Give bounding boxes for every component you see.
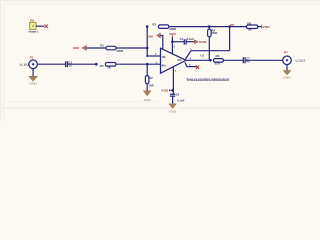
- wire R9 bottom to output node: [208, 37, 210, 61]
- wire R8 to VDD: [258, 26, 262, 28]
- wire VDD pin 8 into op-amp: [171, 42, 173, 54]
- R3 value 51R: [215, 62, 220, 66]
- svg-text:VSS: VSS: [161, 89, 168, 93]
- R9 value 100R: [211, 32, 217, 35]
- wire VDD port down to node: [171, 37, 173, 42]
- svg-text:P7: P7: [284, 50, 288, 54]
- connector P1: [29, 60, 38, 69]
- junction node PD: [228, 25, 231, 28]
- svg-text:GND: GND: [169, 110, 177, 114]
- resistor R2 designator: [152, 23, 156, 27]
- svg-text:R3: R3: [216, 54, 220, 58]
- net label PD: [230, 23, 235, 27]
- resistor R5: [105, 63, 116, 67]
- wire P1 down to ground: [32, 69, 34, 77]
- R2 value 200R: [169, 27, 176, 31]
- svg-text:0.1uF: 0.1uF: [187, 37, 195, 41]
- resistor R9 designator: [211, 29, 215, 33]
- sheet border inner horizontal line: [4, 3, 320, 5]
- OUT2 stub diagonal lower: [185, 62, 197, 66]
- resistor R1: [106, 46, 116, 50]
- wire R5 to op-amp IN+: [116, 63, 161, 65]
- op-amp U1 triangle: [161, 48, 187, 73]
- pin number 3: [156, 62, 158, 65]
- power port VDD above op-amp: [169, 32, 177, 37]
- node A vertical wire: [146, 27, 148, 56]
- svg-text:IN+: IN+: [162, 64, 167, 68]
- resistor R8 designator: [247, 22, 251, 26]
- connector P6: [30, 22, 36, 29]
- resistor R9: [208, 29, 212, 37]
- resistor R3: [214, 59, 224, 63]
- capacitor C7: [243, 56, 250, 63]
- resistor R8: [247, 25, 258, 29]
- power port GND right of C4: [194, 40, 206, 44]
- pin number 7: [175, 70, 177, 73]
- P6 comment Header 1: [29, 29, 39, 33]
- connector P6 designator: [30, 18, 34, 22]
- svg-text:C9: C9: [176, 93, 180, 97]
- pin number 2: [155, 53, 157, 56]
- wire PD node to R8: [230, 26, 247, 28]
- corner node to IN-: [146, 55, 148, 57]
- C4 value 0.1uF: [187, 37, 195, 41]
- R7 designator: [150, 77, 154, 80]
- net label V-OUT: [295, 59, 305, 63]
- capacitor C3: [66, 61, 73, 68]
- svg-text:GND: GND: [29, 81, 38, 85]
- wire R2 to node B: [169, 26, 209, 28]
- junction node on input row: [95, 63, 98, 66]
- power port GND left of R1: [73, 45, 87, 50]
- wire R1 to node A: [116, 47, 147, 49]
- OUT- wire to corner: [191, 50, 230, 52]
- wire P7 down to ground: [286, 65, 288, 71]
- net label V-IN: [19, 63, 29, 67]
- ground symbol below P7: [283, 71, 292, 80]
- svg-text:VDD: VDD: [262, 25, 270, 29]
- svg-text:GND: GND: [144, 98, 152, 102]
- OUT- stub diagonal: [186, 51, 191, 59]
- svg-text:50R: 50R: [149, 85, 154, 88]
- resistor R1 designator: [100, 43, 104, 47]
- R1 value 200R: [116, 49, 123, 53]
- sheet border inner vertical line: [3, 4, 5, 121]
- svg-text:Header 1: Header 1: [29, 29, 39, 33]
- svg-text:THS4140/4501/4503/4520: THS4140/4501/4503/4520: [186, 78, 229, 82]
- capacitor C4 designator: [180, 37, 184, 41]
- junction node output: [209, 59, 212, 62]
- connector P1 designator: [30, 55, 34, 59]
- svg-text:GND: GND: [147, 35, 153, 39]
- resistor R3 designator: [216, 54, 220, 58]
- ground symbol below P1: [29, 76, 38, 85]
- svg-text:200R: 200R: [169, 27, 176, 31]
- wire VOCM gnd to pin: [160, 36, 162, 50]
- svg-text:P6: P6: [30, 18, 34, 22]
- wire GND to R1: [86, 47, 106, 49]
- svg-text:VDD: VDD: [169, 32, 177, 36]
- svg-text:200R: 200R: [116, 49, 123, 53]
- connector P7: [283, 56, 292, 65]
- wire VDD node to C4: [172, 41, 184, 43]
- vertical wire PD node down to OUT- line: [229, 27, 231, 51]
- wire C7 to P7: [246, 59, 283, 61]
- svg-text:V-IN: V-IN: [19, 63, 29, 67]
- resistor R2: [158, 25, 168, 29]
- capacitor C9: [170, 93, 180, 97]
- junction node IN+ / R7 branch: [146, 63, 149, 66]
- sheet border faint left band: [0, 0, 1, 121]
- svg-text:0.1uF: 0.1uF: [177, 98, 185, 102]
- svg-text:R2: R2: [152, 23, 156, 27]
- wire R3 to C7: [223, 59, 242, 61]
- junction VDD node: [171, 40, 174, 43]
- svg-text:51R: 51R: [215, 62, 220, 66]
- wire R9 top stub: [208, 27, 210, 30]
- power port VDD right: [262, 25, 271, 29]
- no-ERC cross on P6 pin: [45, 24, 49, 28]
- power port GND for VOCM: [147, 33, 161, 39]
- pin number 5: [189, 64, 191, 67]
- svg-text:100R: 100R: [211, 32, 217, 35]
- connector P7 designator: [284, 50, 288, 54]
- wire R7 to ground: [146, 84, 148, 91]
- svg-text:C4: C4: [180, 37, 184, 41]
- pin number 4: [190, 58, 192, 61]
- resistor R5 designator: [100, 64, 104, 68]
- R8 value 1K: [248, 27, 253, 31]
- svg-text:GND: GND: [73, 46, 79, 50]
- svg-text:R1: R1: [100, 43, 104, 47]
- wire C4 to GND: [186, 41, 194, 43]
- svg-text:R5: R5: [100, 64, 104, 68]
- junction VSS node: [172, 89, 175, 92]
- no-ERC cross on pin 5: [196, 66, 199, 70]
- svg-text:GND: GND: [283, 76, 291, 80]
- ground symbol below R7: [143, 91, 151, 103]
- sheet faint lower-left band: [8, 101, 158, 102]
- wire IN+ node down to R7: [146, 64, 148, 75]
- svg-text:IN-: IN-: [162, 55, 166, 59]
- OUT+ wire apex to node: [186, 59, 211, 61]
- op-amp designator U1: [200, 54, 204, 58]
- pin number 8: [174, 45, 176, 48]
- wire P1 to C3: [37, 63, 65, 65]
- ground symbol below C9: [169, 104, 177, 114]
- wire C9 to ground: [172, 96, 174, 104]
- R7 value 50R: [149, 85, 154, 88]
- wire VSS pin from op-amp down: [172, 67, 174, 95]
- pin number 1: [190, 48, 192, 51]
- resistor R7: [145, 76, 149, 84]
- svg-text:U1: U1: [200, 54, 204, 58]
- svg-text:GND: GND: [199, 40, 207, 44]
- sheet border faint top band: [0, 0, 320, 1]
- svg-text:P1: P1: [30, 55, 34, 59]
- sheet faint bottom band: [0, 107, 320, 109]
- power port VSS: [161, 89, 173, 93]
- capacitor C4: [184, 39, 186, 44]
- op-amp part number text: [186, 78, 229, 82]
- wire C3 to junction: [68, 63, 96, 65]
- R5 value 1K: [107, 66, 112, 70]
- junction node B: [208, 25, 211, 28]
- junction node A top: [146, 25, 149, 28]
- wire node B to PD node: [209, 26, 229, 28]
- pin 1 wire of P6: [36, 25, 44, 27]
- junction node A on R1 row: [146, 47, 149, 50]
- wire into op-amp IN- pin 2: [147, 55, 160, 57]
- svg-text:V-OUT: V-OUT: [295, 59, 305, 63]
- C9 value 0.1uF: [177, 98, 185, 102]
